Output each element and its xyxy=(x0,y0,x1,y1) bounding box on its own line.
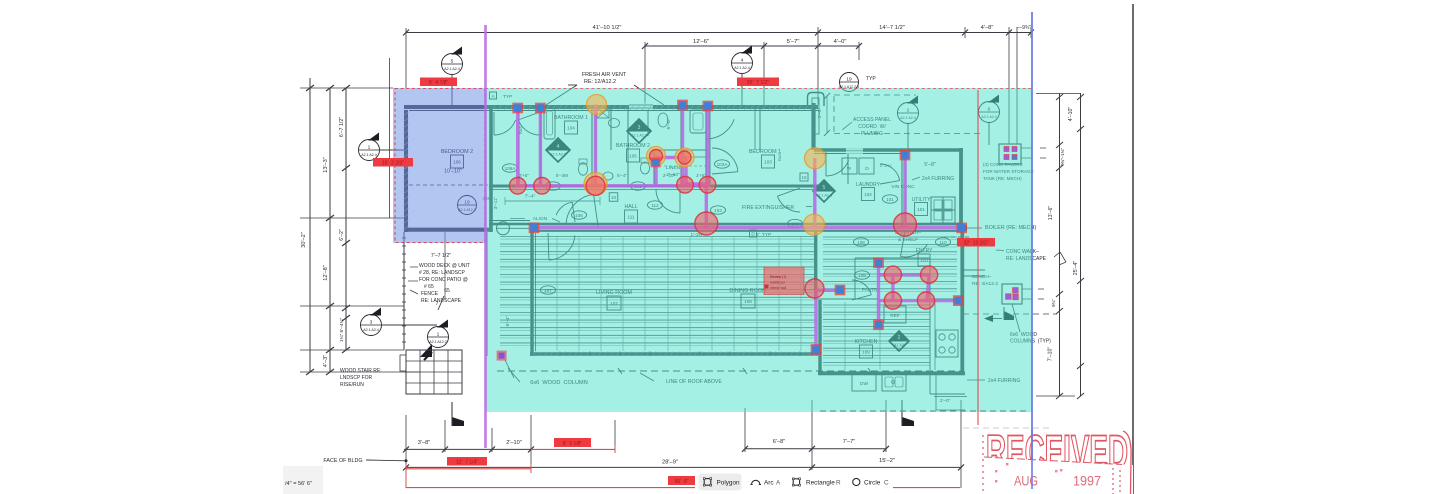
door arc bedroom1 xyxy=(826,152,849,176)
red circle pantry 926 bottom xyxy=(917,292,934,309)
wall: living left xyxy=(530,231,533,356)
red circle H1 x=594 xyxy=(586,176,605,195)
red dim line 8'-9 1/8" xyxy=(531,448,615,450)
svg-text:# 28, RE: LANDSCP: # 28, RE: LANDSCP xyxy=(419,270,466,276)
svg-text:rewrite per: rewrite per xyxy=(770,281,786,285)
red circle H1 x=681 xyxy=(677,177,694,194)
dimension line 28'-9" / 15'-2" xyxy=(406,466,961,468)
dimension line left x=330 xyxy=(329,88,331,372)
wall: hall top (double) xyxy=(489,185,818,188)
dimension ticks top row xyxy=(403,30,409,36)
detail marker 19 TYP xyxy=(839,73,860,92)
svg-text:LNDSCP FOR: LNDSCP FOR xyxy=(340,375,373,381)
wall: bedroom2 left exterior xyxy=(404,110,408,232)
orange circle top V3 xyxy=(587,95,607,115)
detail marker 2/A2.1-A2.4 xyxy=(898,96,919,124)
endpoint square sq pantry top xyxy=(873,257,884,268)
toolbar icon rectangle xyxy=(793,479,799,485)
typ marker A xyxy=(490,92,497,99)
dimension line left x=310 xyxy=(309,78,311,372)
leader access panel xyxy=(842,122,852,130)
svg-text:1¾" 6'–4¾": 1¾" 6'–4¾" xyxy=(339,318,345,343)
toolbar icon polygon xyxy=(704,479,711,486)
svg-text:RISE/RUN: RISE/RUN xyxy=(340,382,364,388)
svg-text:Arc: Arc xyxy=(764,480,774,487)
wall: kitchen left xyxy=(818,300,821,375)
purple trace V8 bedroom1 wall xyxy=(813,158,816,226)
fixture: sink bathroom2 xyxy=(658,113,668,127)
purple trace pantry H y=300.6 xyxy=(879,299,959,302)
svg-text:1997: 1997 xyxy=(1073,474,1101,489)
partition x=760 ras xyxy=(759,109,761,150)
door arc living 107 xyxy=(548,233,575,260)
svg-text:Polygon: Polygon xyxy=(717,480,741,487)
purple trace H2 linen xyxy=(656,156,686,159)
door arc entry 110 xyxy=(900,231,927,257)
orange circle linen left xyxy=(647,147,666,166)
partition utility x=902 xyxy=(901,152,903,228)
purple mini squares column box lower xyxy=(1013,288,1019,294)
svg-text:25'–4": 25'–4" xyxy=(1073,261,1079,276)
purple trace H3 long living top xyxy=(534,226,962,229)
partition laundry x=848 xyxy=(847,152,849,184)
dashed roof line xyxy=(497,370,963,372)
svg-text:3: 3 xyxy=(370,320,373,326)
door arc bath2 xyxy=(656,189,680,213)
red label 56'-6" xyxy=(668,476,695,485)
purple trace V6 xyxy=(706,106,709,186)
detail marker 1/A2.1-A2.4 left xyxy=(359,133,380,161)
svg-text:C: C xyxy=(884,480,889,487)
hatch: kitchen verticals xyxy=(844,302,846,370)
purple trace V3 xyxy=(594,105,597,187)
diamond marker 3 xyxy=(627,119,651,143)
red circle junction x=706 living xyxy=(695,212,718,235)
svg-text:41'–10 1/2": 41'–10 1/2" xyxy=(593,25,622,31)
dimension line 6'-8" / 7'-7" xyxy=(745,448,886,450)
stamp waist line xyxy=(984,457,1122,465)
fixture: kitchen sink xyxy=(882,374,906,391)
red label 12'-7 1/4" xyxy=(447,457,487,466)
hatch: deck joist verticals xyxy=(557,236,801,351)
svg-text:7'–7": 7'–7" xyxy=(843,439,855,445)
svg-text:/4" = 56' 6": /4" = 56' 6" xyxy=(285,481,312,487)
fixture: washer dryer xyxy=(842,158,857,174)
svg-text:1: 1 xyxy=(368,145,371,151)
red circle H1 x=706 xyxy=(699,177,716,194)
thick flag bench xyxy=(1004,311,1014,320)
svg-text:A2.1 A2.4: A2.1 A2.4 xyxy=(734,66,750,70)
toolbar selected chip polygon xyxy=(699,474,742,491)
partition entry/pantry xyxy=(855,257,930,259)
svg-text:4'–8": 4'–8" xyxy=(981,25,994,31)
door arc 106A double leaf xyxy=(494,112,516,135)
red label 9'-4 7/8" xyxy=(420,78,457,87)
svg-text:1: 1 xyxy=(437,332,440,338)
svg-text:A2.1 A2.4: A2.1 A2.4 xyxy=(444,67,460,71)
extension lines bottom xyxy=(405,415,407,469)
orange circle V3 bottom halo xyxy=(584,173,607,196)
partition x=540 xyxy=(540,109,542,184)
fixture: ref xyxy=(884,306,906,323)
counter kitchen right xyxy=(929,302,931,370)
dashed bottom right corner xyxy=(963,427,1050,429)
purple trace V9 utility wall xyxy=(903,155,906,226)
thick flag bottom stairs xyxy=(452,417,464,426)
purple trace V4 linen left xyxy=(654,157,657,186)
overlay: cyan highlight region xyxy=(486,88,1033,412)
dimension line left x=346 xyxy=(345,88,347,350)
svg-text:Rectangle: Rectangle xyxy=(806,480,835,487)
fixture: sink bathroom1 xyxy=(609,119,620,128)
typ marker 16 xyxy=(800,173,808,181)
door arc 103A xyxy=(706,109,734,139)
svg-text:9¾"–1¾": 9¾"–1¾" xyxy=(1060,148,1065,166)
fixture: stove xyxy=(936,330,958,357)
svg-text:4'–10": 4'–10" xyxy=(1068,107,1074,122)
wall: dining right / entry divider xyxy=(814,231,817,300)
red label 16'-2 2/3" xyxy=(373,158,413,167)
svg-text:FENCE: FENCE xyxy=(421,291,439,297)
svg-text:65: 65 xyxy=(444,288,450,294)
window gap top wall xyxy=(629,104,653,111)
svg-text:7'–10": 7'–10" xyxy=(1048,347,1054,362)
dim line 2-5 xyxy=(826,96,828,133)
vent bump above top wall xyxy=(808,93,825,107)
svg-text:9' 4 7/8": 9' 4 7/8" xyxy=(429,80,449,86)
svg-text:32' 10 2/3": 32' 10 2/3" xyxy=(964,240,989,246)
purple trace H1 hall top xyxy=(515,184,710,187)
shelf linen xyxy=(654,149,708,151)
red dim line 12'-7 1/4" xyxy=(406,468,531,470)
red circle pantry 893 bottom xyxy=(884,292,901,309)
detail marker 4/A2.1-A2.4 xyxy=(732,46,753,74)
wall: right exterior upper xyxy=(959,148,963,230)
wall: bedroom2/bath divider xyxy=(489,105,493,232)
purple trace V5 xyxy=(681,105,684,187)
svg-text:interior wall: interior wall xyxy=(770,286,786,290)
scale chip background xyxy=(283,466,323,494)
endpoint square sq V2 top xyxy=(535,103,546,114)
wall: bedroom2 top xyxy=(404,105,490,109)
wall: top exterior (double) xyxy=(488,105,818,109)
dashed line at cyan bottom edge xyxy=(820,410,1030,412)
purple trace pantry H y=274.7 xyxy=(879,273,930,276)
dimension line right x=1059.5 xyxy=(1059,93,1061,396)
extension line x=389.5 left xyxy=(389,58,391,218)
typ marker D xyxy=(750,230,757,237)
stair block xyxy=(406,350,462,394)
svg-text:8' 9 1/8": 8' 9 1/8" xyxy=(563,441,583,447)
red label 8'-9 1/8" xyxy=(554,438,591,447)
red circle pantry 893 top xyxy=(884,266,901,283)
dimension line: 12'-6" / 5'-7" / 4'-0" row xyxy=(645,45,859,47)
purple trace linen H lower xyxy=(686,182,708,185)
fixture: tub bathroom2 xyxy=(690,110,706,133)
purple trace kitchen V x=816 xyxy=(814,290,817,349)
red circle H1 x=542 xyxy=(534,178,551,195)
purple column square standalone xyxy=(497,351,507,361)
svg-text:R: R xyxy=(836,480,841,487)
red circle pantry 929 top xyxy=(921,266,938,283)
endpoint square sq kitchen right xyxy=(835,285,846,296)
svg-text:Circle: Circle xyxy=(864,480,881,487)
purple trace pantry V x=878.5 xyxy=(877,263,880,325)
svg-text:A2.1 A2.4: A2.1 A2.4 xyxy=(363,328,379,332)
svg-text:FOR CONC PATIO @: FOR CONC PATIO @ xyxy=(419,277,468,283)
partition x=519 xyxy=(518,109,520,184)
svg-text:12'–6": 12'–6" xyxy=(693,39,709,45)
wall: living top / align (double) xyxy=(489,223,963,226)
endpoint square sq pantry bottom xyxy=(873,319,884,330)
svg-text:Review (?): Review (?) xyxy=(770,275,786,279)
red circle H1 x=518 xyxy=(509,178,526,195)
endpoint square sq V1 top xyxy=(512,103,523,114)
detail marker 6/A2.1-A2.4 xyxy=(979,95,1000,123)
svg-text:6'–7 1/2": 6'–7 1/2" xyxy=(339,117,345,137)
svg-text:4: 4 xyxy=(741,58,744,64)
wall: kitchen/entry divider y=300 xyxy=(818,298,878,300)
door arc hall 106 xyxy=(556,202,575,222)
hatch: kitchen area boards xyxy=(823,305,930,365)
endpoint square sq V9 top xyxy=(900,150,911,161)
orange circle V8 bottom xyxy=(804,214,825,235)
wall hatch ticks living bottom wall xyxy=(532,352,818,357)
diamond marker 5 xyxy=(813,180,835,202)
purple trace V7 to living line xyxy=(705,186,708,229)
dimension line 3'-8" / 2'-10" xyxy=(404,448,532,450)
wall: top-right y=150 xyxy=(814,148,963,152)
selection border red dashed around blue region xyxy=(395,89,485,243)
svg-text:56' 6": 56' 6" xyxy=(675,479,689,485)
orange circle V8 top xyxy=(805,148,826,169)
svg-text:12'–8": 12'–8" xyxy=(323,265,329,281)
svg-text:# 65: # 65 xyxy=(424,284,434,290)
toolbar icon circle xyxy=(853,478,860,485)
fixture: toilet bathroom1 xyxy=(578,163,587,175)
svg-text:FACE OF BLDG: FACE OF BLDG xyxy=(323,458,362,464)
stamp purple line through xyxy=(1031,430,1033,489)
kitchen step bottom right xyxy=(929,375,931,394)
purple trace linen V right xyxy=(684,158,687,185)
svg-text:9¾": 9¾" xyxy=(1051,299,1056,307)
endpoint square linen joint xyxy=(651,158,661,168)
svg-text:7'–7 1/2": 7'–7 1/2" xyxy=(431,253,451,259)
svg-text:7: 7 xyxy=(436,301,439,307)
svg-text:28'–9": 28'–9" xyxy=(662,460,678,466)
purple mini squares column box upper xyxy=(1004,147,1009,152)
window mullions bottom wall xyxy=(559,352,561,357)
svg-text:5: 5 xyxy=(451,59,454,65)
stamp white waist cover xyxy=(975,457,1133,494)
partition x=594 (double) xyxy=(591,105,593,184)
svg-text:13'–6": 13'–6" xyxy=(1048,206,1054,221)
room tag ovals doors xyxy=(503,164,518,172)
fence line xyxy=(403,232,405,350)
svg-text:A2.1 A12.2: A2.1 A12.2 xyxy=(429,340,447,344)
leader wood deck xyxy=(410,266,418,268)
room tag 101 oval xyxy=(883,195,898,203)
svg-text:TYP: TYP xyxy=(866,76,876,82)
svg-text:AUG: AUG xyxy=(1014,474,1038,489)
fixture: tub bathroom1 xyxy=(544,108,555,139)
wall: right exterior lower xyxy=(960,228,964,375)
svg-text:6'–8": 6'–8" xyxy=(773,439,785,445)
purple-blue edge line right x=1032 xyxy=(1031,12,1033,489)
svg-text:5'–7": 5'–7" xyxy=(787,39,800,45)
fixture: counter bathroom1 xyxy=(597,108,609,118)
hatch: living/dining deck boards xyxy=(500,237,815,346)
svg-text:12' 7 1/4": 12' 7 1/4" xyxy=(456,459,478,465)
svg-text:4'–3": 4'–3" xyxy=(323,355,329,367)
sheet border vertical line xyxy=(1132,4,1134,494)
deck column marks xyxy=(618,368,622,374)
detail marker 3/A2.1-A2.4 left lower xyxy=(361,308,382,336)
purple trace kitchen H y=290 xyxy=(816,289,840,292)
endpoint square sq H3 right xyxy=(956,223,967,234)
svg-text:14'–7 1/2": 14'–7 1/2" xyxy=(879,25,905,31)
orange circle linen right xyxy=(675,148,694,167)
endpoint square sq kitchen bottom xyxy=(811,344,822,355)
partition x=628 xyxy=(627,109,629,184)
svg-text:A2.1 A2.4: A2.1 A2.4 xyxy=(361,153,377,157)
annotation red vertical line x=978 xyxy=(977,90,979,425)
dashed bench line xyxy=(963,313,1057,315)
red tooltip annotation box xyxy=(764,267,804,295)
wall: bedroom2 bottom xyxy=(404,228,492,232)
stamp left dashed border xyxy=(982,435,984,494)
svg-text:13'–3": 13'–3" xyxy=(323,157,329,173)
svg-text:19: 19 xyxy=(846,77,852,83)
dimension line: overall 41'-10 1/2" / 14'-7 1/2" / 4'-8" / 9 3/4" row xyxy=(406,32,1031,34)
endpoint square sq pantry H right xyxy=(953,295,964,306)
detail marker 5/A2.1-A2.4 xyxy=(442,47,463,75)
endpoint square sq H3 left xyxy=(529,222,540,233)
deck edge lines xyxy=(486,232,488,356)
svg-text:WOOD STAIR RE:: WOOD STAIR RE: xyxy=(340,368,382,374)
stamp dots xyxy=(995,470,997,472)
selection top edge dashed over cyan xyxy=(485,88,1032,90)
svg-text:—9¾": —9¾" xyxy=(1017,25,1031,31)
door arc bath1 xyxy=(566,194,598,226)
door arc laundry xyxy=(880,164,900,184)
svg-text:4'–0": 4'–0" xyxy=(834,39,847,45)
wall: bedroom1 right divider (vertical) xyxy=(811,103,815,150)
wall: living/dining bottom xyxy=(530,352,818,356)
typ marker 10 xyxy=(609,193,618,202)
purple trace pantry V x=929 xyxy=(927,275,929,301)
red circle kitchen x=814 xyxy=(805,279,824,298)
red dim line 56'-6" full width xyxy=(406,487,960,489)
stamp right dashed border xyxy=(1112,468,1114,494)
diamond marker 2 kitchen xyxy=(889,331,909,351)
leader: fresh air vent xyxy=(546,85,577,105)
column box lower right xyxy=(1002,284,1022,304)
svg-text:RE: 12/A12.2: RE: 12/A12.2 xyxy=(584,79,616,85)
thick flag kitchen bottom xyxy=(902,417,914,426)
detail marker 1/A2.1-A12.2 xyxy=(428,320,449,348)
svg-text:6'–2": 6'–2" xyxy=(339,229,345,241)
svg-text:3'–8": 3'–8" xyxy=(418,440,430,446)
purple trace V1 xyxy=(516,108,519,186)
window gap wall y150 xyxy=(846,148,863,153)
svg-text:55' 7 1/2": 55' 7 1/2" xyxy=(747,80,769,86)
overlay: blue selection region bedroom2 xyxy=(393,88,486,243)
red label 32'-10 2/3" xyxy=(957,238,995,247)
door arc hall 102 xyxy=(777,188,800,212)
column box upper right xyxy=(999,144,1021,164)
red circle linen right small xyxy=(678,151,691,164)
red circle linen left small xyxy=(650,150,663,163)
purple trace pantry V x=893 xyxy=(891,275,894,301)
door arc pantry 109 xyxy=(852,280,871,300)
room tag 112 xyxy=(648,201,663,209)
svg-text:15'–2": 15'–2" xyxy=(879,458,895,464)
wall: kitchen bottom exterior xyxy=(818,371,965,375)
wall hatch ticks bedroom2 left wall xyxy=(404,112,409,230)
wall hatch ticks top wall xyxy=(492,106,814,111)
diamond marker 4 xyxy=(546,138,570,162)
red circle junction x=905 living xyxy=(894,213,917,236)
purple edge line left x=485.5 xyxy=(484,25,487,448)
bench seat lines xyxy=(963,269,985,271)
toolbar icon arc xyxy=(752,480,760,484)
wall: bedroom2 closet dashed xyxy=(409,184,488,186)
fixture: dw xyxy=(852,374,876,391)
fixture: toilet bathroom2 xyxy=(640,162,649,174)
leader 6x6 columns xyxy=(1012,304,1020,332)
endpoint square sq V6 top xyxy=(703,101,714,112)
svg-text:WOOD DECK @ UNIT: WOOD DECK @ UNIT xyxy=(419,263,470,269)
partition x=654 linen xyxy=(653,150,655,184)
endpoint square sq V5 top xyxy=(677,100,688,111)
utility window grid xyxy=(931,197,955,223)
stamp right D remnant xyxy=(1123,431,1131,494)
hatch: entry area boards xyxy=(823,237,957,291)
partition x=708 (double) xyxy=(705,105,707,184)
dimension line right x=1080.5 xyxy=(1080,93,1082,396)
toolbar background xyxy=(695,471,893,494)
grid bubble at living wall left xyxy=(497,222,510,235)
partition x=681 xyxy=(680,105,682,184)
svg-text:A: A xyxy=(776,480,781,487)
purple trace V2 xyxy=(539,108,542,186)
svg-text:2'–10": 2'–10" xyxy=(506,440,522,446)
svg-text:FRESH AIR VENT: FRESH AIR VENT xyxy=(582,72,627,78)
detail marker 19 SIM in bedroom xyxy=(458,196,477,215)
svg-text:30'–2": 30'–2" xyxy=(301,232,307,248)
svg-text:16' 2 2/3": 16' 2 2/3" xyxy=(382,160,404,166)
red label 55'-7 1/2" xyxy=(737,78,779,87)
dashes near boiler xyxy=(944,236,948,238)
dashed attic access region xyxy=(834,133,980,135)
